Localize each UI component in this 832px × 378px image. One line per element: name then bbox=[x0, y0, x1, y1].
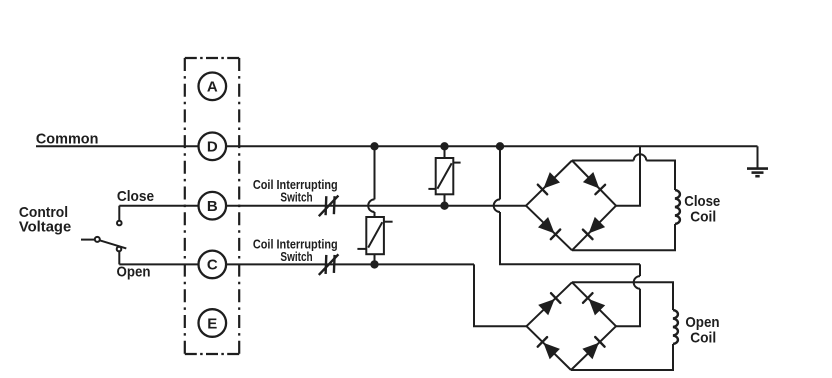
diode CR2-2 (Open bridge top-right) bbox=[583, 293, 605, 315]
wire: RV2 to Close line bbox=[444, 194, 446, 205]
coil interrupting switch S2 (Open circuit) bbox=[319, 254, 339, 275]
svg-text:Switch: Switch bbox=[280, 250, 312, 264]
node: RV1 / Open line junction bbox=[371, 261, 377, 267]
svg-text:A: A bbox=[207, 79, 218, 96]
diode CR2-4 (Open bridge bottom-right) bbox=[582, 337, 604, 359]
wire: Open-bridge feed drop bbox=[639, 264, 641, 276]
diode CR1-4 (Close bridge bottom-right) bbox=[583, 217, 605, 239]
wire: Close coil lead to coil top bbox=[646, 161, 675, 191]
node: Common / varistor RV1 tap bbox=[371, 143, 377, 149]
bridge rectifier CR1 (Close) diamond bbox=[526, 161, 616, 251]
terminal C bbox=[199, 251, 227, 279]
wire: Close coil bottom to bridge DC- bbox=[572, 224, 675, 250]
svg-text:Voltage: Voltage bbox=[19, 219, 71, 236]
wire: ground drop bbox=[757, 146, 759, 168]
inductor L1 Close Coil bbox=[675, 190, 680, 224]
coil interrupting switch S1 (Close circuit) bbox=[319, 196, 339, 217]
wire: Close-bridge feed (Common to AC-right) bbox=[616, 146, 640, 205]
svg-text:Close: Close bbox=[117, 188, 154, 205]
terminal D bbox=[199, 133, 227, 161]
wire: RV1 branch upper bbox=[374, 146, 376, 199]
wire: Close line (terminal B to Close bridge AC-left) bbox=[226, 205, 526, 207]
ground GND bbox=[747, 169, 768, 177]
wire: Open line drop to bridge level bbox=[474, 264, 527, 326]
svg-text:C: C bbox=[207, 257, 218, 274]
wire: Close bridge DC+ toward coil bbox=[572, 160, 634, 162]
varistor RV1 bbox=[357, 217, 392, 254]
svg-text:Coil: Coil bbox=[690, 329, 716, 346]
terminal A bbox=[199, 73, 227, 101]
node: Common / varistor RV2 tap bbox=[441, 143, 447, 149]
svg-text:Switch: Switch bbox=[280, 190, 312, 204]
wire: Open-bridge feed down and across bbox=[500, 212, 640, 264]
switch SW1 pivot (Control Voltage feed) bbox=[81, 237, 100, 242]
wire: Open line (label stub to terminal C) bbox=[119, 263, 198, 265]
diode CR1-3 (Close bridge bottom-left) bbox=[538, 217, 560, 239]
inductor L2 Open Coil bbox=[673, 310, 678, 344]
wire hop: Open-bridge feed over Close line bbox=[494, 199, 500, 212]
svg-text:Common: Common bbox=[36, 131, 99, 148]
diode CR1-2 (Close bridge top-right) bbox=[583, 172, 605, 194]
svg-text:D: D bbox=[207, 139, 218, 156]
wire: Open-bridge feed upper bbox=[499, 146, 501, 199]
wire: Close contact drop bbox=[118, 206, 120, 221]
node: Close stationary contact bbox=[117, 221, 122, 226]
wire: Common bus (left of terminal D) bbox=[36, 145, 199, 147]
svg-text:Coil: Coil bbox=[690, 209, 716, 226]
switch SW1 blade bbox=[100, 240, 126, 248]
wire: RV1 to Open line bbox=[374, 254, 376, 264]
node: Common / Open-bridge feed tap bbox=[497, 143, 503, 149]
wire: Open line (terminal C to corner) bbox=[226, 263, 474, 265]
wire: RV2 branch upper bbox=[444, 146, 446, 158]
svg-text:Close: Close bbox=[684, 193, 720, 210]
wire hop: Close coil lead over Close-bridge feed bbox=[634, 154, 647, 160]
wire: Open contact drop bbox=[118, 251, 120, 264]
terminal E bbox=[199, 309, 227, 337]
svg-text:B: B bbox=[207, 198, 218, 215]
wire: Common bus (terminal D to ground drop) bbox=[226, 145, 757, 147]
wire: Close line (label stub to terminal B) bbox=[119, 205, 198, 207]
bridge rectifier CR2 (Open) diamond bbox=[527, 282, 617, 370]
diode CR2-1 (Open bridge top-left) bbox=[538, 293, 560, 315]
diode CR2-3 (Open bridge bottom-left) bbox=[538, 337, 560, 359]
terminal block TB1 (dash-dot outline) bbox=[185, 58, 239, 354]
node: Open stationary contact bbox=[117, 247, 122, 252]
diode CR1-1 (Close bridge top-left) bbox=[538, 172, 560, 194]
varistor RV2 bbox=[428, 158, 460, 194]
svg-text:Open: Open bbox=[117, 264, 151, 281]
terminal B bbox=[199, 192, 227, 220]
wire: Open bridge DC+ to coil top bbox=[572, 282, 673, 310]
node: RV2 / Close line junction bbox=[441, 203, 447, 209]
wire hop: RV1 branch over Close line bbox=[368, 199, 374, 212]
wire hop: Open-bridge feed over Open coil lead bbox=[634, 276, 640, 289]
wire: Open-bridge feed to AC-right bbox=[616, 289, 640, 327]
wire: RV1 branch to varistor bbox=[374, 212, 376, 217]
svg-text:E: E bbox=[207, 315, 217, 332]
wire: Open coil bottom to bridge DC- bbox=[571, 344, 673, 370]
